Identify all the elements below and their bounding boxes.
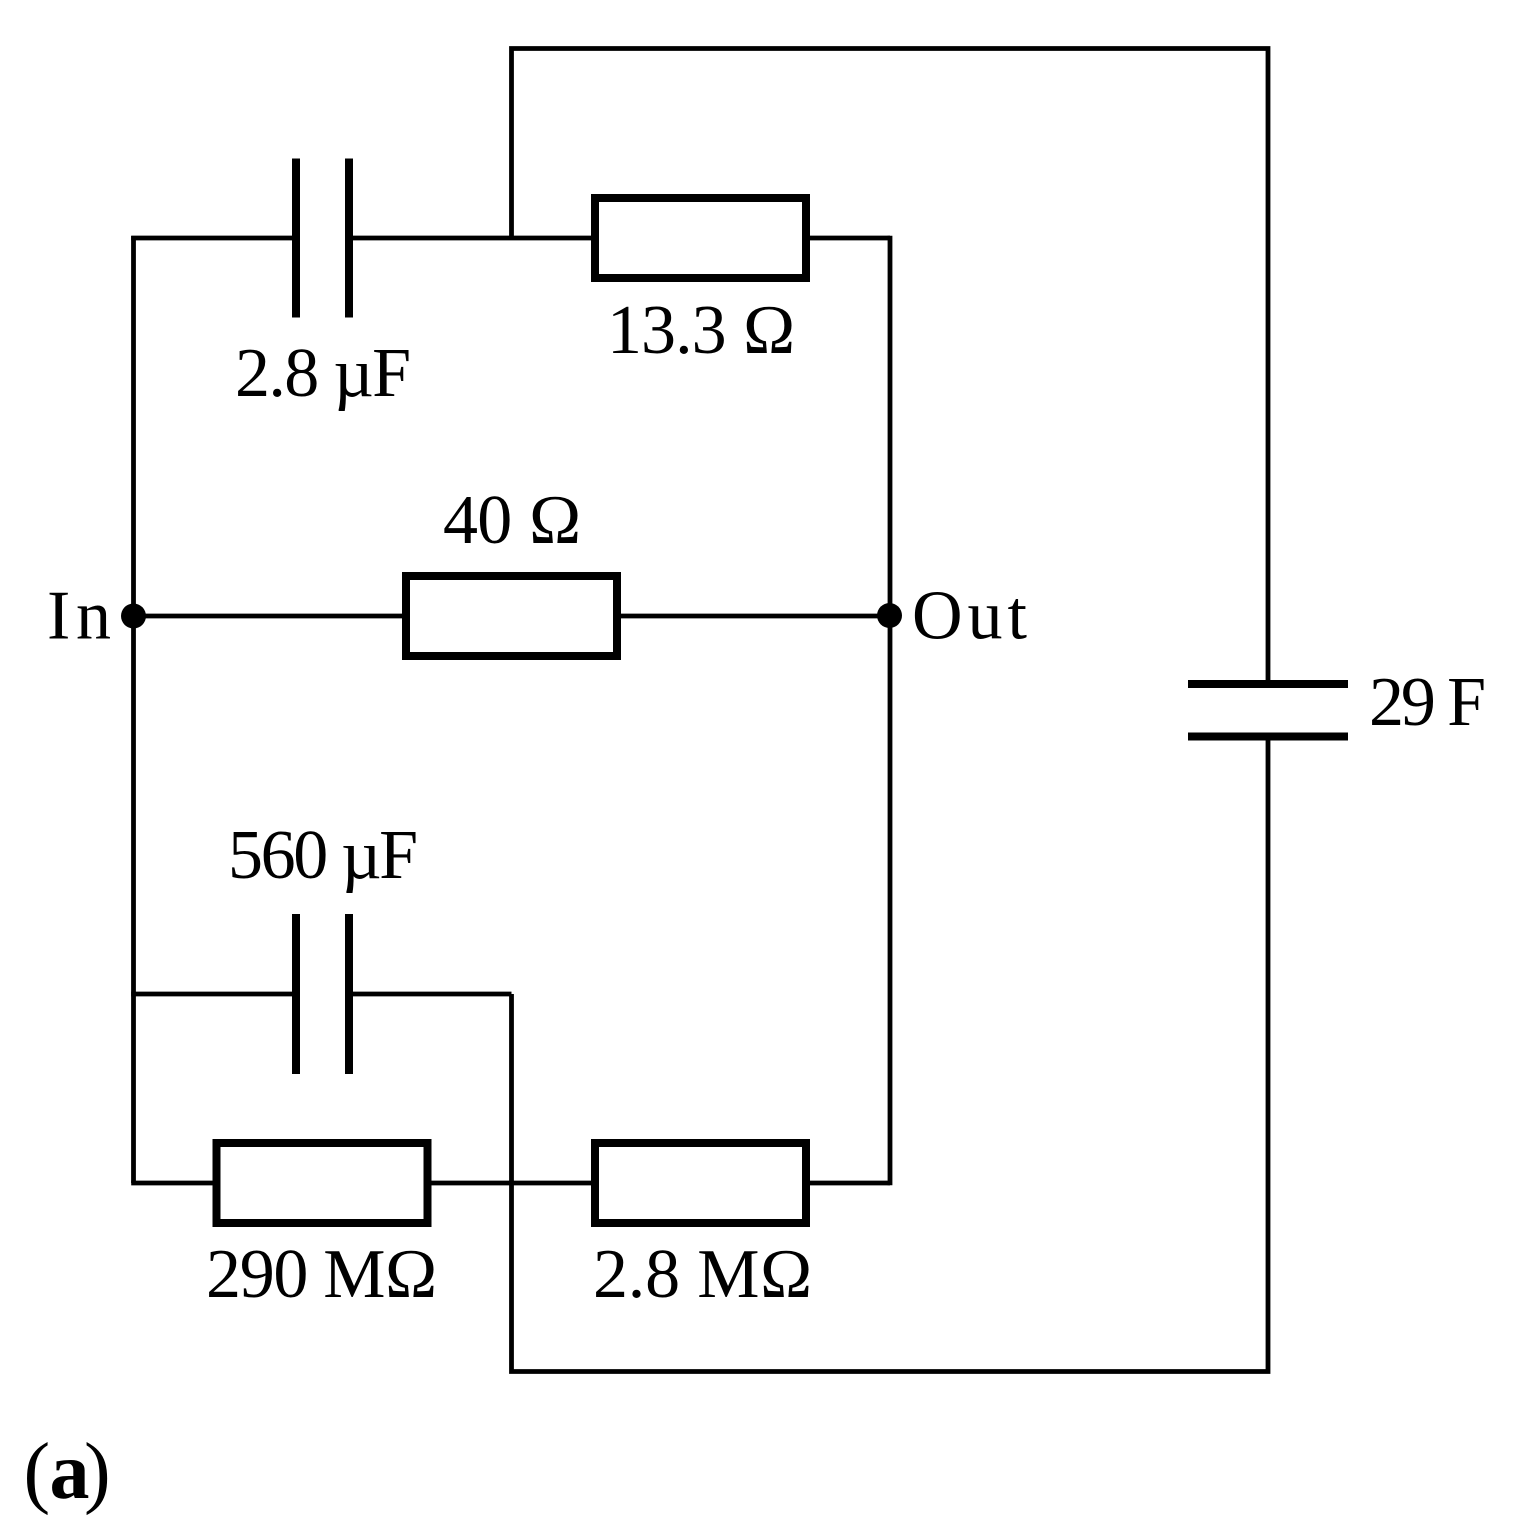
svg-text:29 F: 29 F: [1369, 664, 1486, 741]
svg-text:In: In: [47, 578, 111, 655]
wire: bottom branch between R 290M and R 2.8M: [428, 1181, 595, 1186]
wire: right mid rail (top branch down through Out to bottom branch): [888, 236, 893, 1186]
capacitor C2 560uF left plate: [292, 914, 300, 1074]
resistor R3 290M ohm box: [217, 1143, 428, 1223]
wire: top branch left segment (In rail to C 2.8uF left plate): [131, 236, 296, 241]
svg-text:(: (: [24, 1428, 51, 1516]
capacitor C1 2.8uF right plate: [345, 159, 353, 318]
wire: mid branch R 40 to Out: [617, 614, 890, 619]
wire: bottom branch left segment (rail to R 290M): [131, 1181, 216, 1186]
node Out dot: [877, 603, 902, 628]
capacitor C3 29F bottom plate: [1188, 733, 1348, 741]
svg-text:): ): [84, 1428, 111, 1516]
wire: 560uF branch left segment: [131, 992, 296, 997]
svg-text:560 µF: 560 µF: [228, 817, 418, 894]
capacitor C2 560uF right plate: [345, 914, 353, 1074]
resistor R2 40 ohm box: [406, 576, 617, 656]
svg-text:Out: Out: [912, 578, 1028, 655]
wire: 560uF branch right segment: [349, 992, 512, 997]
resistor R4 2.8M ohm box: [595, 1143, 806, 1223]
wire: bottom rail loop (29F bottom plate down, across, up to 560uF branch): [512, 737, 1269, 1372]
svg-text:2.8 µF: 2.8 µF: [235, 335, 411, 412]
wire: top branch from R 13.3 to right rail corner: [806, 236, 890, 241]
node In dot: [121, 604, 146, 629]
svg-text:13.3 Ω: 13.3 Ω: [607, 292, 796, 369]
wire: mid branch In to R 40: [134, 614, 407, 619]
resistor R1 13.3 ohm box: [595, 198, 806, 278]
wire: bottom branch R 2.8M to right rail: [806, 1181, 890, 1186]
svg-text:2.8 MΩ: 2.8 MΩ: [593, 1236, 813, 1313]
wire: top branch right segment (C 2.8uF right plate to R 13.3 box): [349, 236, 595, 241]
capacitor C1 2.8uF left plate: [292, 159, 300, 318]
wire: top rail loop (up from top branch junction, across, down to 29F top plate): [512, 49, 1269, 685]
capacitor C3 29F top plate: [1188, 680, 1348, 688]
svg-text:40 Ω: 40 Ω: [443, 482, 582, 559]
svg-text:290 MΩ: 290 MΩ: [206, 1236, 438, 1313]
wire: left rail from top branch to bottom branch: [131, 236, 136, 1183]
